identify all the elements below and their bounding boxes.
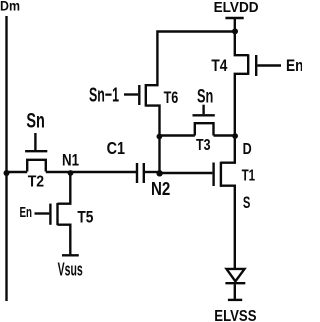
- svg-text:T3: T3: [196, 137, 211, 154]
- svg-text:T2: T2: [28, 173, 44, 190]
- wire N2 to T1 gate: [160, 172, 213, 174]
- svg-text:S: S: [243, 194, 251, 212]
- wire data line Dm vertical: [5, 16, 7, 301]
- T4 channel bar: [247, 54, 249, 75]
- T4 gate lead: [257, 64, 281, 66]
- power terminal Vsus bar: [62, 254, 79, 256]
- wire ELVDD terminal to junction: [234, 18, 236, 32]
- T4 gate bar: [255, 55, 257, 76]
- svg-text:T5: T5: [77, 208, 93, 227]
- T1 gate bar: [212, 163, 214, 187]
- T2 gate lead: [34, 133, 36, 150]
- power terminal ELVSS bar: [228, 299, 242, 301]
- svg-text:ELVDD: ELVDD: [214, 0, 259, 16]
- node junction dot D: [232, 133, 238, 139]
- svg-text:T4: T4: [211, 56, 227, 75]
- T6 gate lead: [124, 93, 138, 95]
- T4 source bottom leg: [235, 74, 248, 136]
- diode OLED: [225, 269, 245, 283]
- wire T3 drain to node D: [214, 134, 235, 136]
- transistor T2: [25, 133, 47, 172]
- svg-text:ELVSS: ELVSS: [214, 308, 256, 322]
- svg-text:Sn: Sn: [197, 86, 213, 107]
- OLED anode triangle: [227, 269, 245, 281]
- svg-text:Vsus: Vsus: [58, 259, 83, 279]
- svg-text:T6: T6: [164, 88, 179, 107]
- T5 gate lead: [35, 212, 50, 214]
- wire T2 drain to node N1 and C1: [46, 171, 137, 173]
- T5 source bottom leg down to Vsus: [58, 225, 71, 255]
- svg-text:En: En: [286, 57, 302, 75]
- T5 gate bar: [49, 204, 51, 225]
- T4 drain lead from ELVDD junction: [235, 32, 248, 56]
- wire node to T3 source: [160, 134, 195, 136]
- T3 gate bar: [193, 114, 215, 116]
- svg-text:N2: N2: [151, 179, 170, 199]
- C1 left plate: [136, 163, 138, 183]
- svg-text:Dm: Dm: [0, 0, 20, 14]
- power terminal ELVDD bar: [225, 17, 243, 19]
- C1 right plate: [143, 163, 145, 183]
- T1 source bottom leg down to OLED: [221, 186, 235, 269]
- svg-text:En: En: [20, 204, 33, 221]
- node junction dot N1: [68, 170, 74, 176]
- T5 channel bar: [56, 203, 58, 225]
- svg-text:Sn−1: Sn−1: [89, 84, 119, 107]
- OLED cathode bar: [225, 282, 245, 284]
- wire OLED to ELVSS terminal: [234, 284, 236, 300]
- wire Dm to T2 source: [7, 171, 28, 173]
- T6 channel bar: [145, 84, 147, 107]
- svg-text:T1: T1: [242, 168, 256, 185]
- T3 gate lead: [202, 105, 204, 115]
- wire node above to N2: [158, 136, 160, 173]
- node junction dot ELVDD branch: [232, 28, 238, 34]
- T3 channel staple: [195, 123, 214, 135]
- transistor T5: [35, 172, 71, 255]
- transistor T1: [214, 136, 235, 269]
- wire C1 to node N2: [144, 171, 160, 173]
- capacitor C1: [137, 163, 144, 183]
- svg-text:Sn: Sn: [26, 108, 45, 132]
- T6 source bottom leg down to node: [146, 106, 160, 136]
- T6 gate bar: [138, 85, 140, 105]
- svg-text:D: D: [243, 141, 252, 158]
- svg-text:N1: N1: [62, 151, 79, 169]
- svg-text:C1: C1: [107, 138, 126, 158]
- T1 channel bar: [220, 162, 222, 187]
- transistor T4: [235, 32, 281, 136]
- transistor T3: [193, 105, 215, 136]
- wire ELVDD branch horizontal and down to T6 drain: [146, 32, 235, 86]
- T5 drain lead from node N1: [58, 172, 71, 204]
- node junction dot N2: [156, 170, 162, 176]
- T2 gate bar: [25, 150, 47, 152]
- transistor T6: [124, 84, 160, 136]
- T1 drain lead from node D: [221, 136, 235, 163]
- T2 channel staple: [27, 160, 46, 172]
- node junction dot below T6: [157, 134, 163, 140]
- node junction dot on Dm: [4, 170, 10, 176]
